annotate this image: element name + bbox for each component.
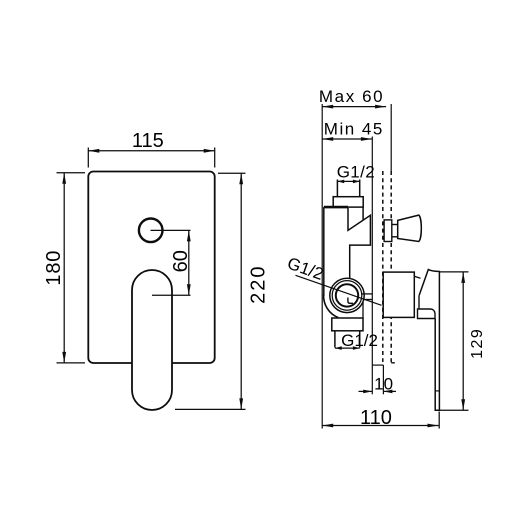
svg-text:Max 60: Max 60 <box>319 87 384 106</box>
svg-text:220: 220 <box>247 265 269 304</box>
svg-text:10: 10 <box>374 374 393 393</box>
svg-text:G1/2: G1/2 <box>341 331 378 350</box>
svg-text:G1/2: G1/2 <box>337 163 375 182</box>
svg-text:180: 180 <box>43 250 65 286</box>
svg-text:60: 60 <box>170 250 192 272</box>
svg-text:Min 45: Min 45 <box>324 120 384 139</box>
svg-text:110: 110 <box>360 407 392 429</box>
svg-text:115: 115 <box>132 130 164 152</box>
svg-text:129: 129 <box>469 328 486 359</box>
